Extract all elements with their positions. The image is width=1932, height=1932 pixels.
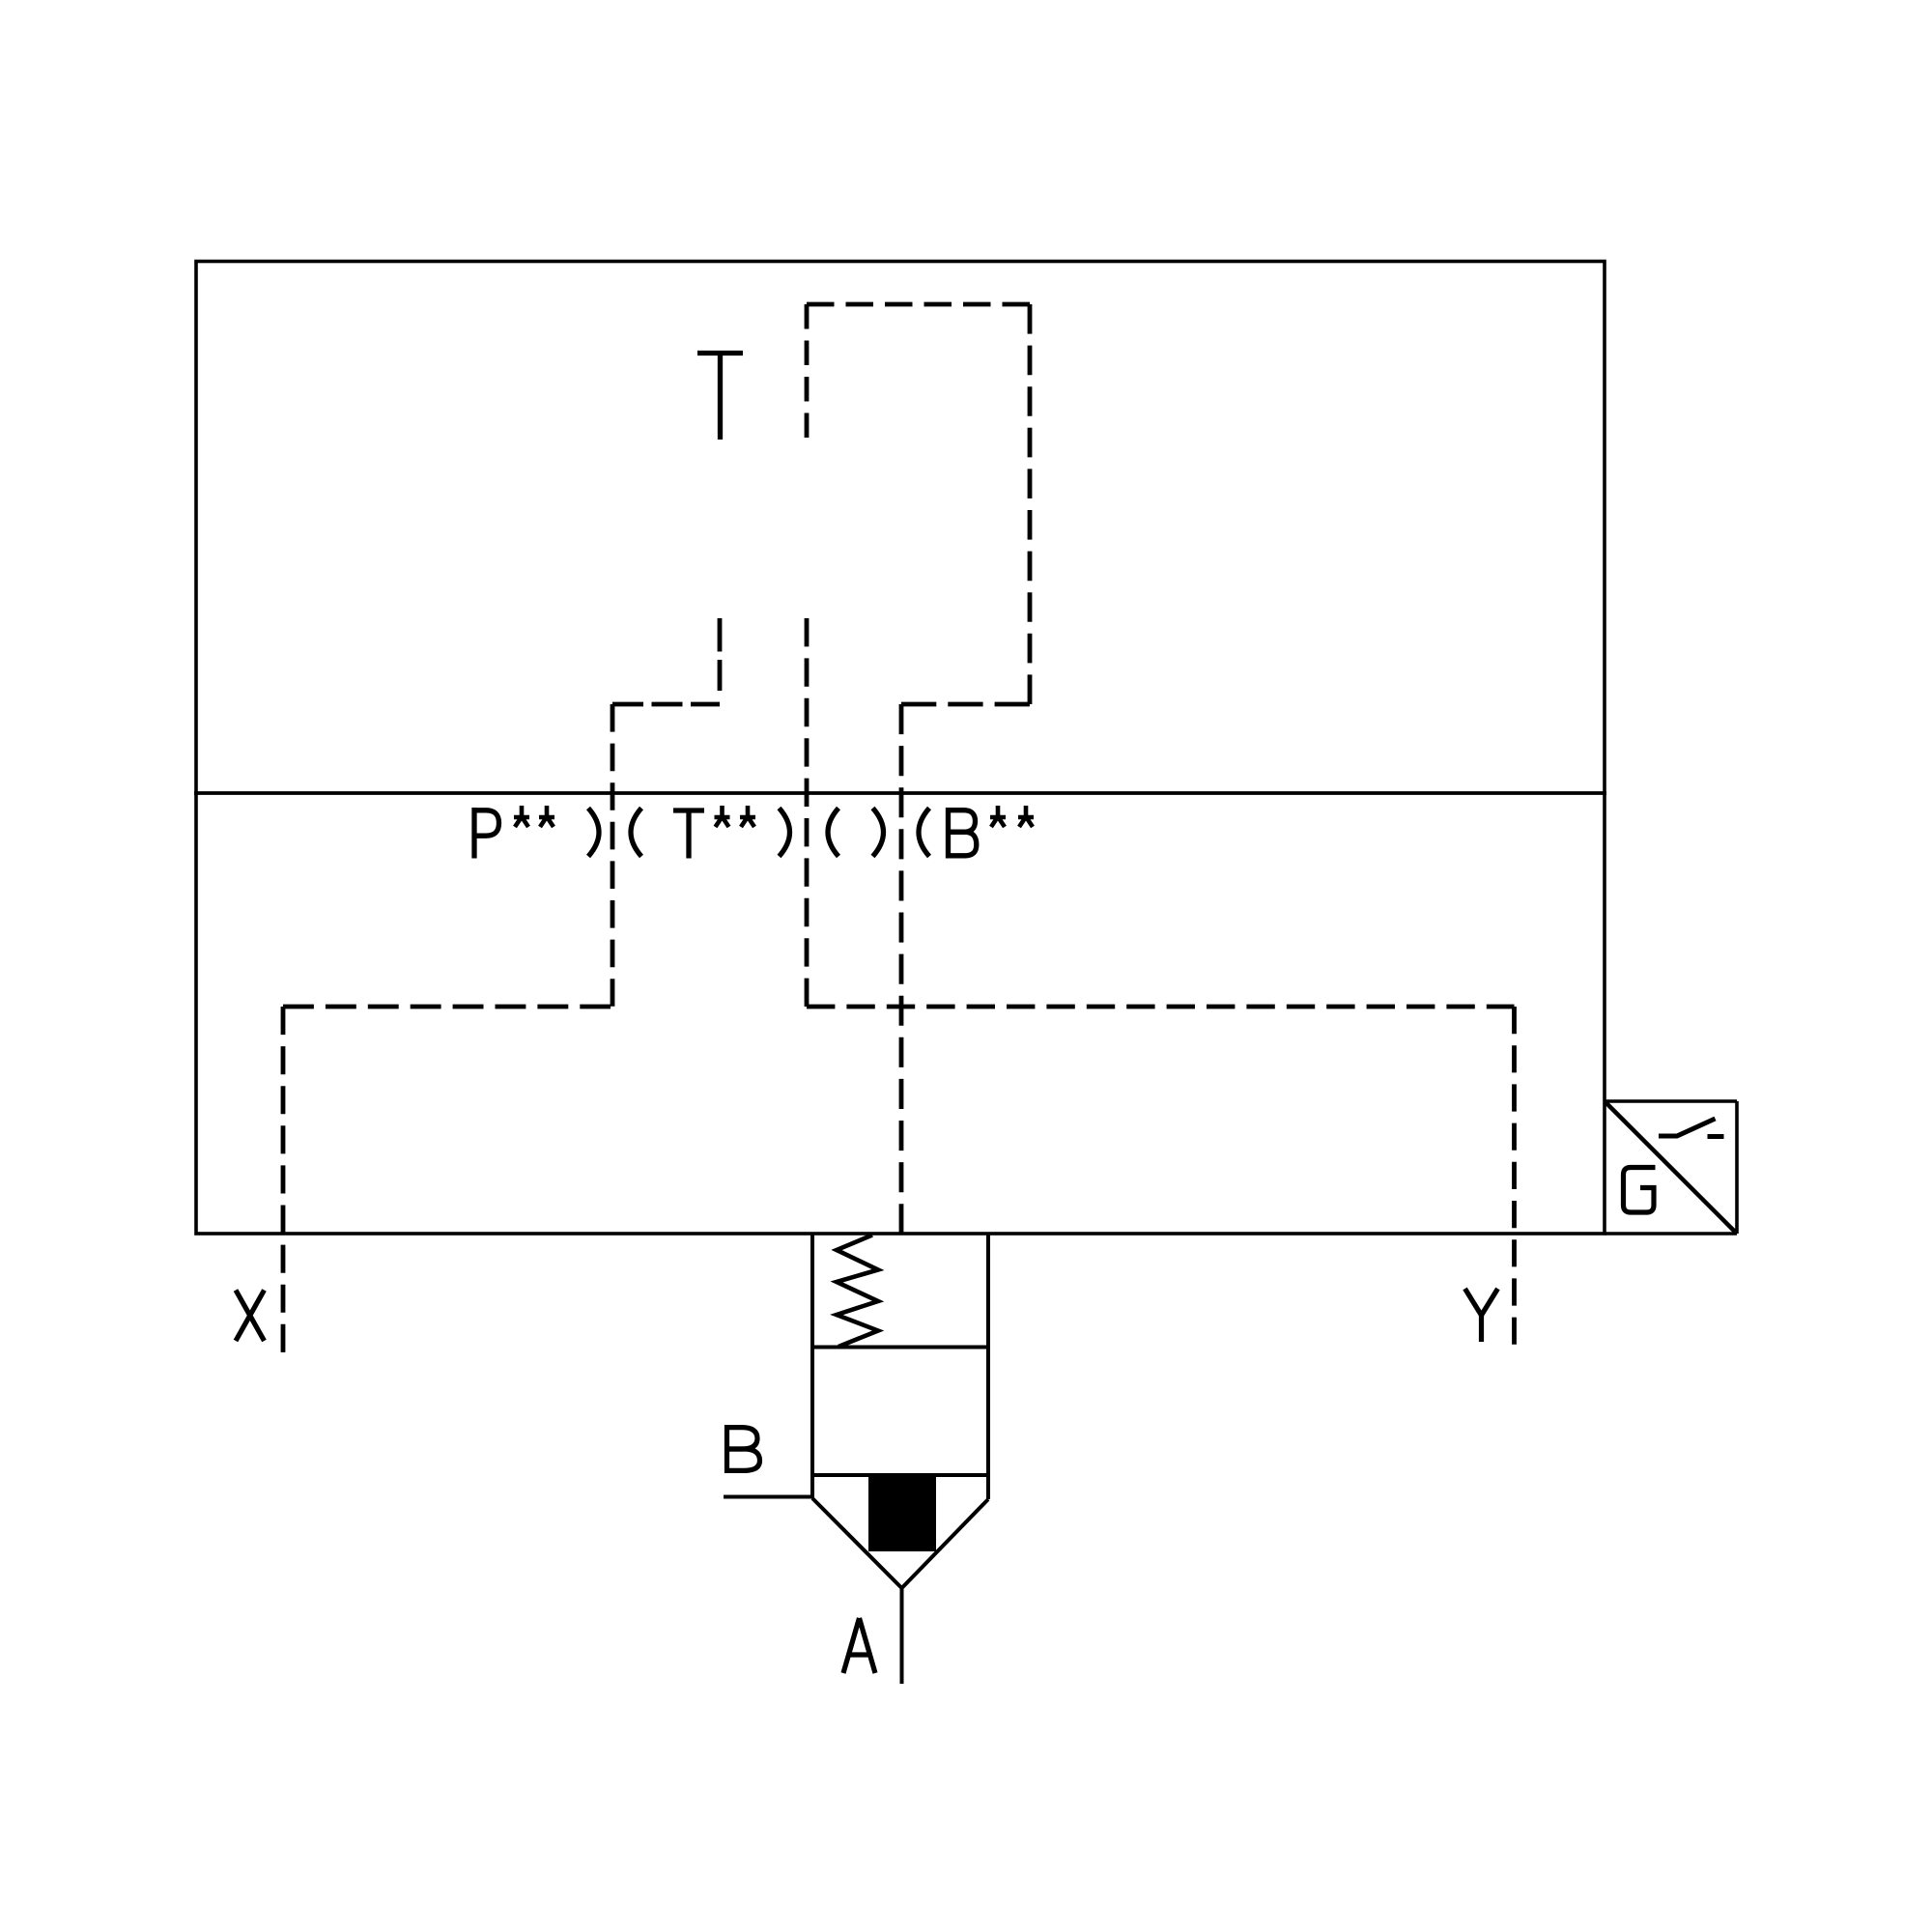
orifice paren ) after P xyxy=(588,809,599,857)
pilot line: T stub vertical dashed xyxy=(718,618,723,691)
valve spring xyxy=(837,1236,878,1348)
pilot line: right loop vertical dashed xyxy=(1028,304,1033,704)
switch lever icon xyxy=(1659,1119,1724,1137)
label X xyxy=(236,1291,265,1342)
G box (position switch) xyxy=(1605,1101,1737,1234)
port label row: P xyxy=(474,808,499,859)
orifice paren ( mid xyxy=(828,809,838,857)
asterisks after B xyxy=(990,806,1034,827)
port A line xyxy=(900,1588,904,1684)
pilot line: jog horizontal dashed xyxy=(612,702,720,707)
port label row: T xyxy=(673,809,704,859)
orifice paren ( before T xyxy=(631,809,641,857)
orifice paren ( before B xyxy=(919,809,929,857)
pilot line Y: vertical dashed xyxy=(1512,1007,1517,1345)
orifice paren ) after T xyxy=(780,809,790,857)
block mid divider line xyxy=(194,791,1606,795)
pilot line X: horizontal dashed left xyxy=(283,1005,611,1009)
cartridge valve body right side xyxy=(986,1234,990,1499)
port B line xyxy=(724,1495,812,1499)
pilot line T: upper left vertical dashed xyxy=(805,304,810,438)
manifold block outline xyxy=(196,262,1605,1235)
label Y xyxy=(1465,1289,1498,1342)
label G xyxy=(1624,1168,1656,1213)
orifice paren ) mid xyxy=(873,809,884,857)
label A xyxy=(843,1618,875,1673)
pilot line: mid left vertical dashed xyxy=(805,618,810,1007)
pilot line: loop bottom horizontal dashed xyxy=(901,702,1030,707)
valve seat chord line xyxy=(812,1473,988,1477)
valve poppet (black) xyxy=(868,1477,936,1551)
asterisks after P xyxy=(514,806,554,827)
pilot line X: vertical dashed xyxy=(281,1007,286,1352)
pilot line P: vertical dashed xyxy=(611,704,615,1007)
valve spring chamber divider xyxy=(812,1346,988,1350)
asterisks after T xyxy=(715,806,756,827)
label T (tank) xyxy=(697,351,743,440)
valve funnel right slope xyxy=(902,1499,989,1588)
cartridge valve body left side xyxy=(810,1234,814,1498)
pilot line Y: horizontal dashed right xyxy=(807,1005,1515,1009)
pilot line T: top horizontal dashed xyxy=(807,302,1030,307)
label B xyxy=(727,1425,760,1473)
pilot line to valve: vertical dashed xyxy=(899,704,904,1234)
valve funnel left slope xyxy=(812,1498,902,1588)
port label row: B xyxy=(949,808,977,859)
